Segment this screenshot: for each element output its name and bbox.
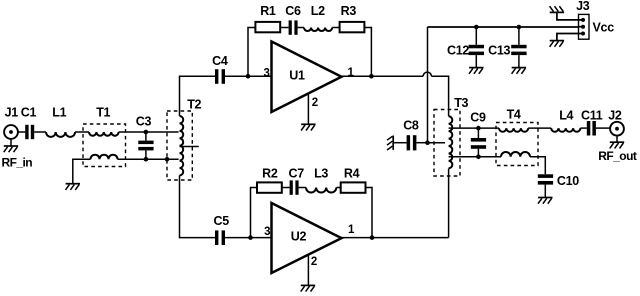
wire J3 pin3 to ground — [557, 34, 583, 41]
wire T3 center tap — [428, 142, 446, 144]
wire R3 to U1 output riser — [364, 28, 371, 77]
svg-text:T2: T2 — [187, 97, 201, 111]
transformer T4 — [496, 123, 538, 166]
op-amp U2 — [272, 203, 342, 273]
wire T1 to T2 upper tap — [119, 131, 179, 133]
ground at J3 pin1 — [550, 6, 565, 12]
svg-text:2: 2 — [311, 256, 317, 268]
node U2 output junction — [370, 235, 375, 240]
wire U2 feedback left riser — [251, 188, 258, 238]
node C3 bottom junction — [144, 157, 149, 162]
wire C6 to L2 — [298, 27, 304, 29]
svg-text:C10: C10 — [557, 174, 579, 188]
ground at C8 — [387, 136, 393, 151]
wire U1 output — [342, 75, 424, 77]
svg-text:L1: L1 — [52, 105, 66, 119]
connector J3 — [579, 14, 590, 39]
wire T2 top to C4 — [180, 76, 216, 116]
ground at J2 — [610, 142, 625, 148]
svg-text:1: 1 — [348, 224, 355, 236]
wire J1 to C1 — [18, 131, 25, 133]
wire T4 to L4 — [528, 127, 551, 129]
transformer T3 — [434, 110, 460, 177]
svg-text:U1: U1 — [289, 69, 305, 83]
svg-text:R4: R4 — [344, 166, 360, 180]
inductor L1 — [46, 132, 75, 137]
transformer T1 — [83, 124, 126, 167]
svg-text:C1: C1 — [21, 105, 37, 119]
wire L2 to R3 — [332, 27, 339, 29]
ground at C13 — [512, 68, 526, 74]
ground at J3 pin3 — [550, 41, 565, 47]
inductor L3 — [306, 188, 336, 193]
capacitor C4 — [215, 69, 225, 84]
node C9 bottom junction — [476, 155, 481, 160]
svg-text:1: 1 — [347, 67, 354, 79]
svg-text:3: 3 — [264, 226, 270, 238]
capacitor C8 — [393, 135, 427, 150]
transformer T2 — [167, 111, 192, 180]
wire L1 to T1 — [75, 131, 89, 133]
node U1 output junction — [369, 74, 374, 79]
svg-text:T3: T3 — [454, 96, 468, 110]
svg-text:L4: L4 — [559, 109, 573, 123]
wire U1 feedback left riser — [248, 28, 255, 77]
svg-text:C5: C5 — [214, 214, 230, 228]
svg-text:Vcc: Vcc — [593, 20, 615, 34]
ground at J1 — [4, 146, 19, 152]
wire hop over Vcc riser — [423, 72, 431, 76]
svg-text:C4: C4 — [212, 54, 228, 68]
node C3 top junction — [144, 130, 149, 135]
wire T1 secondary to T2 lower tap — [118, 158, 179, 160]
capacitor C3 — [138, 132, 153, 159]
ground at T1 — [66, 184, 81, 190]
svg-text:C8: C8 — [403, 118, 419, 132]
wire Vcc rail — [428, 26, 579, 28]
capacitor C13 — [511, 27, 526, 67]
wire T2 center tap stub — [180, 146, 199, 148]
wire C5 to U2 input — [225, 237, 272, 239]
node T2 tap dot — [165, 157, 170, 162]
wire L4 to C11 — [580, 127, 586, 129]
wire Vcc riser — [427, 27, 429, 143]
node C13 junction — [517, 25, 522, 30]
capacitor C6 — [289, 20, 298, 34]
capacitor C11 — [587, 121, 596, 136]
wire R1 to C6 — [280, 27, 288, 29]
resistor R2 — [257, 182, 282, 192]
svg-text:C12: C12 — [447, 44, 469, 58]
wire T2 bottom to C5 — [180, 175, 216, 237]
node Vcc/C8 junction — [425, 140, 430, 145]
wire C1 to L1 — [34, 131, 46, 133]
resistor R4 — [341, 182, 366, 192]
svg-text:T4: T4 — [507, 107, 521, 121]
svg-text:C3: C3 — [136, 114, 152, 128]
connector J1 — [4, 125, 18, 146]
svg-text:L2: L2 — [311, 4, 325, 18]
svg-text:RF_out: RF_out — [598, 149, 637, 163]
inductor L4 — [551, 128, 580, 132]
svg-text:U2: U2 — [291, 229, 307, 243]
svg-text:C6: C6 — [285, 4, 301, 18]
ground at U2 — [301, 285, 316, 291]
svg-text:RF_in: RF_in — [2, 156, 33, 170]
svg-text:2: 2 — [312, 97, 318, 109]
node C12 junction — [474, 25, 479, 30]
node C9 top junction — [476, 126, 481, 131]
svg-text:R2: R2 — [262, 166, 278, 180]
svg-text:C13: C13 — [488, 44, 510, 58]
wire T1 secondary to ground — [73, 159, 91, 183]
capacitor C9 — [471, 128, 486, 157]
wire U2 output to T3 bottom — [448, 169, 450, 238]
wire C11 to J2 — [596, 127, 610, 129]
svg-text:T1: T1 — [96, 105, 110, 119]
pin 2 stem U1 — [307, 94, 309, 124]
wire R4 to U2 output riser — [366, 188, 373, 238]
op-amp U1 — [272, 42, 342, 113]
svg-text:C11: C11 — [581, 109, 603, 123]
svg-text:J1: J1 — [5, 105, 19, 119]
wire T3 bottom tap to T4 — [449, 156, 501, 158]
node U1 input junction — [246, 74, 251, 79]
svg-text:C7: C7 — [289, 166, 305, 180]
node U2 input junction — [248, 235, 253, 240]
capacitor C12 — [469, 27, 484, 67]
wire J3 pin1 to ground — [557, 12, 583, 20]
svg-text:R3: R3 — [341, 4, 357, 18]
connector J2 — [610, 122, 624, 142]
ground at C10 — [538, 198, 553, 204]
capacitor C10 — [538, 174, 553, 197]
wire L3 to R4 — [336, 187, 340, 189]
wire hop to T3 top — [431, 76, 448, 116]
wire R2 to C7 — [282, 187, 290, 189]
capacitor C5 — [215, 230, 225, 245]
wire C4 to U1 input — [225, 75, 272, 77]
capacitor C1 — [25, 125, 34, 139]
svg-text:J3: J3 — [576, 0, 590, 13]
inductor L2 — [304, 28, 332, 32]
wire J3 pin2 — [579, 26, 584, 28]
ground at C12 — [469, 68, 484, 74]
svg-text:C9: C9 — [470, 110, 486, 124]
resistor R1 — [255, 22, 280, 32]
wire C7 to L3 — [299, 187, 306, 189]
svg-text:R1: R1 — [260, 4, 276, 18]
svg-text:L3: L3 — [314, 166, 328, 180]
ground at U1 — [301, 124, 316, 130]
svg-text:J2: J2 — [608, 109, 622, 123]
pin 2 stem U2 — [307, 255, 309, 285]
capacitor C7 — [290, 180, 299, 194]
wire T3 top tap to T4 — [449, 127, 499, 129]
resistor R3 — [340, 22, 365, 32]
wire T4 secondary to C10 — [530, 157, 545, 175]
svg-text:3: 3 — [263, 68, 269, 80]
wire U2 output — [342, 237, 449, 239]
